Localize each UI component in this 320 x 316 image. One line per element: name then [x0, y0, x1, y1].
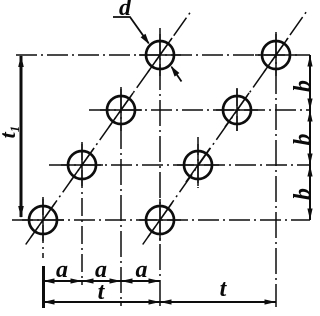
solid center segments through circle 1 [22, 199, 64, 241]
arrowhead a 121 right [110, 278, 122, 283]
center line horizontal row y=110 [89, 109, 310, 111]
arrowhead b 165 down [307, 154, 312, 166]
center line vertical x=43 [42, 197, 44, 258]
arrowhead a left [43, 278, 55, 283]
hole circle 1 (43,220) [29, 206, 57, 234]
solid center segments through circle 4 [139, 34, 181, 76]
solid center segments through circle 7 [216, 89, 258, 131]
leader tail lower right [172, 67, 182, 82]
arrowhead d leader upper [141, 34, 150, 45]
arrowhead d leader lower [171, 66, 180, 77]
center line horizontal row y=220 [12, 219, 310, 221]
arrowhead b top up [307, 55, 312, 67]
center line vertical x=160 [159, 28, 161, 307]
center line horizontal row y=55 [16, 54, 310, 56]
svg-text:a: a [136, 257, 148, 283]
arrowhead t left start [43, 299, 55, 304]
svg-text:d: d [119, 0, 132, 21]
hole circle 4 (160,55) [146, 41, 174, 69]
arrowhead t left end [149, 299, 161, 304]
solid center segments through circle 3 [100, 89, 142, 131]
arrowhead b 165 up [307, 165, 312, 177]
hole circle 5 (160,220) [146, 206, 174, 234]
hole circle 7 (237,110) [223, 96, 251, 124]
arrowhead a 121 left [121, 278, 133, 283]
center line vertical x=237 [236, 88, 238, 131]
hole circle 8 (276,55) [262, 41, 290, 69]
solid center segments through circle 5 [139, 199, 181, 241]
hole circle 6 (198,165) [184, 151, 212, 179]
diagonal center line row 2 [143, 10, 308, 245]
arrowhead a 82 left [82, 278, 94, 283]
center line vertical x=276 [275, 32, 277, 307]
diagonal center line row 1 [26, 10, 192, 245]
arrowhead t1 top [18, 55, 24, 67]
svg-text:t: t [220, 276, 228, 302]
center line vertical x=121 [120, 87, 122, 306]
arrowhead b bottom down [307, 209, 312, 221]
dimension line t1 vertical [20, 56, 23, 217]
arrowhead b 110 up [307, 110, 312, 122]
dimension line t left [43, 301, 160, 303]
arrowhead t right start [160, 299, 172, 304]
arrowhead a 82 right [71, 278, 83, 283]
solid center segments through circle 6 [177, 144, 219, 186]
solid center segments through circle 2 [61, 144, 103, 186]
center line horizontal row y=165 [49, 164, 310, 166]
svg-text:b: b [290, 134, 316, 146]
dimension line b chain [309, 55, 311, 220]
center line vertical x=82 [81, 142, 83, 285]
solid center segments through circle 8 [255, 34, 297, 76]
svg-text:b: b [290, 188, 316, 200]
dimension line a chain [43, 280, 160, 282]
arrowhead t1 bottom [18, 206, 24, 218]
arrowhead t right end [265, 299, 277, 304]
svg-text:a: a [56, 257, 68, 283]
arrowhead a right [149, 278, 161, 283]
leader line for d [113, 17, 149, 43]
hole circle 2 (82,165) [68, 151, 96, 179]
arrowhead b 110 down [307, 99, 312, 111]
svg-text:t1: t1 [0, 126, 22, 139]
svg-text:b: b [290, 80, 316, 92]
extension line bottom left thick [42, 266, 45, 308]
hole circle 3 (121,110) [107, 96, 135, 124]
center line vertical x=198 [197, 137, 199, 188]
dimension line t right [160, 301, 276, 303]
